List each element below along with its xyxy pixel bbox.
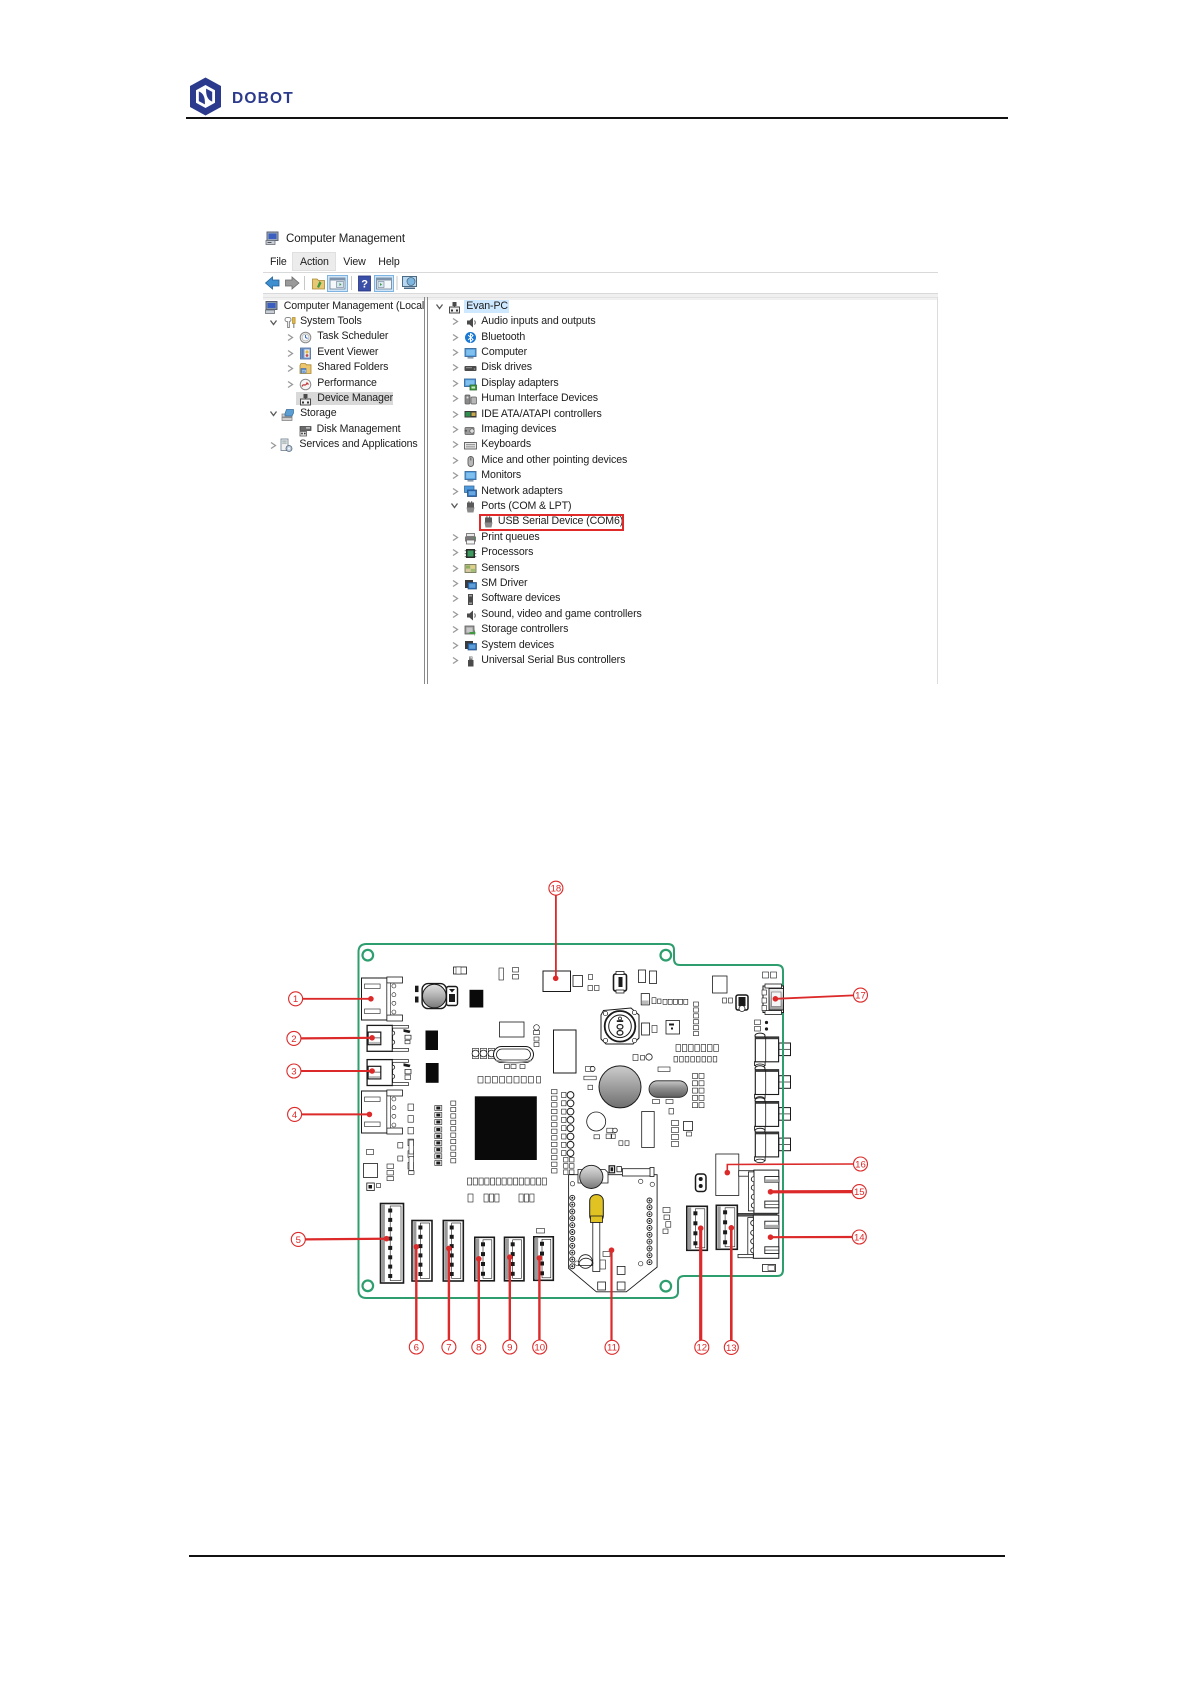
connector 6 (6-pin) (412, 1221, 432, 1282)
svg-text:15: 15 (854, 1187, 865, 1198)
menu bar (292, 252, 336, 271)
toroid inductor L1 (100) (601, 1008, 639, 1044)
white square top-right-center (713, 976, 728, 993)
svg-text:4: 4 (292, 1110, 298, 1121)
svg-text:11: 11 (607, 1343, 617, 1354)
push button SW top-left (415, 984, 446, 1009)
white vertical rect right-mid (642, 1112, 655, 1148)
callout 16 (725, 1157, 868, 1175)
SMD barrel component top-center (614, 972, 627, 994)
pad column right-upper (694, 1002, 699, 1036)
svg-text:14: 14 (854, 1232, 865, 1243)
svg-text:5: 5 (296, 1235, 301, 1246)
SOT-23 regulator (736, 995, 748, 1012)
small parts below (669, 1109, 674, 1115)
pads right of toroid (642, 1023, 650, 1035)
connector 15 (739, 1170, 779, 1213)
window icon selected (328, 276, 348, 292)
resistor pads top-left (454, 967, 467, 974)
jack connector B (755, 1066, 791, 1100)
diode D near button (447, 987, 458, 1006)
connector 9 (4-pin) (505, 1237, 525, 1281)
back arrow (266, 277, 280, 289)
connector 1 (4-pin power) (362, 977, 403, 1021)
svg-text:2: 2 (291, 1034, 296, 1045)
callout 6 (409, 1244, 423, 1354)
small parts left of big cap (584, 1066, 596, 1089)
tall white rect center (554, 1030, 577, 1073)
callout 13 (724, 1225, 738, 1354)
svg-text:7: 7 (446, 1342, 451, 1353)
callout 7 (442, 1246, 456, 1354)
module misc (579, 1252, 611, 1270)
mounting hole top-left (363, 950, 374, 961)
yellow electrolytic capacitor on module (590, 1195, 604, 1223)
black IC U2a (426, 1031, 439, 1051)
connector 4 (4-pin power) (362, 1090, 403, 1134)
callout 3 (287, 1064, 375, 1078)
main MCU U1 (black QFP) (475, 1096, 537, 1160)
callout 17 (773, 988, 868, 1002)
svg-text:16: 16 (855, 1159, 866, 1170)
buzzer (gray circle) on module (578, 1165, 608, 1188)
black IC U small (470, 990, 484, 1008)
svg-text:DOBOT: DOBOT (232, 90, 294, 107)
pads near right edge (755, 1020, 769, 1031)
callout 14 (768, 1230, 867, 1244)
callout 4 (288, 1107, 373, 1121)
callout 12 (695, 1225, 709, 1354)
connector 10 (4-pin) (534, 1237, 554, 1281)
module 11 outline (569, 1175, 658, 1292)
svg-text:18: 18 (551, 884, 562, 895)
jack connector C (755, 1098, 791, 1132)
electrolytic caps x3 (472, 1049, 479, 1059)
forward arrow (286, 277, 300, 289)
callout 9 (503, 1254, 517, 1354)
callout 11 (605, 1247, 619, 1354)
RIGHT PANE (435, 302, 444, 311)
pads right of connector 4 (408, 1104, 414, 1111)
module right pin holes (647, 1198, 652, 1203)
vertical pad pairs column right (693, 1074, 705, 1079)
svg-text:6: 6 (414, 1342, 419, 1353)
white circle pad (587, 1112, 606, 1131)
SMD pad row above U1 (478, 1077, 483, 1084)
callout 10 (533, 1255, 547, 1354)
jack connector D (755, 1128, 791, 1162)
PCB board outline (359, 944, 784, 1298)
vertical slots (409, 1140, 414, 1154)
mounting hole top-right (661, 950, 672, 961)
svg-text:9: 9 (507, 1342, 512, 1353)
svg-text:?: ? (361, 279, 368, 291)
console icon (403, 277, 417, 287)
pad cluster left-mid 1 (435, 1106, 442, 1111)
callout 15 (768, 1185, 867, 1199)
pad column left of U1 (451, 1101, 456, 1105)
svg-text:23: 23 (302, 368, 307, 373)
mounting hole bottom-left (363, 1281, 374, 1292)
capacitor stem (593, 1223, 600, 1272)
svg-text:3: 3 (291, 1066, 296, 1077)
connector 13 (4-pin) (716, 1205, 737, 1249)
module corner holes (570, 1182, 574, 1186)
mounting hole bottom-right (661, 1281, 672, 1292)
module top strip (622, 1169, 653, 1176)
connector 7 (6-pin) (443, 1221, 463, 1282)
LED near 12 (696, 1174, 707, 1192)
white rect 16 (716, 1154, 739, 1196)
svg-text:13: 13 (726, 1343, 737, 1354)
connector 12 (4-pin) (687, 1206, 708, 1250)
svg-text:10: 10 (534, 1342, 545, 1353)
help icon (359, 276, 371, 291)
module left pin holes (570, 1195, 575, 1200)
LEFT PANE (265, 301, 278, 314)
pads G right of rect (534, 1025, 540, 1047)
double pin header center (562, 1092, 574, 1099)
panes (263, 297, 937, 298)
cap and pad row below barrel (641, 994, 688, 1005)
svg-text:8: 8 (476, 1342, 481, 1353)
component 18 target box (543, 971, 571, 992)
white square bottom-left (364, 1164, 378, 1178)
callout 18 (549, 881, 563, 981)
callout 5 (291, 1232, 389, 1246)
svg-text:1: 1 (293, 994, 298, 1005)
small IC with marking top-right-mid (666, 1021, 680, 1035)
svg-text:17: 17 (855, 991, 866, 1002)
callout 2 (287, 1031, 375, 1045)
connector 3 (2-pin) (367, 1060, 411, 1086)
board edge over jacks (782, 1036, 784, 1161)
inductor pill (gray) (649, 1081, 688, 1098)
jack connector A (755, 1033, 791, 1068)
pad rows right of center (676, 1045, 681, 1052)
pad pairs below header (564, 1158, 575, 1175)
callout 8 (472, 1256, 486, 1354)
window icon 2 selected (375, 276, 394, 292)
pin column center (vertical) (552, 1090, 558, 1094)
pad row below U1 (468, 1178, 472, 1185)
crystal oscillator Y1 (494, 1047, 534, 1063)
toolbar (263, 273, 463, 293)
folder with arrow (313, 279, 325, 289)
small pads near white circle (594, 1128, 629, 1145)
title bar (265, 231, 280, 245)
dark pads above module (609, 1166, 621, 1173)
black IC U2b (426, 1063, 439, 1083)
small clusters below pad row (468, 1194, 534, 1202)
white rect above crystal (500, 1022, 525, 1037)
callout 1 (289, 992, 374, 1006)
connector 2 (2-pin) (367, 1025, 411, 1051)
svg-text:12: 12 (696, 1343, 707, 1354)
electrolytic capacitor C (big gray) (599, 1066, 641, 1108)
connector 5 (8-pin) (381, 1204, 404, 1284)
connector 8 (4-pin) (475, 1237, 495, 1281)
pad cluster left-mid 2 (435, 1127, 442, 1132)
micro-USB connector 17 (762, 984, 784, 1015)
connector 14 (738, 1213, 779, 1258)
